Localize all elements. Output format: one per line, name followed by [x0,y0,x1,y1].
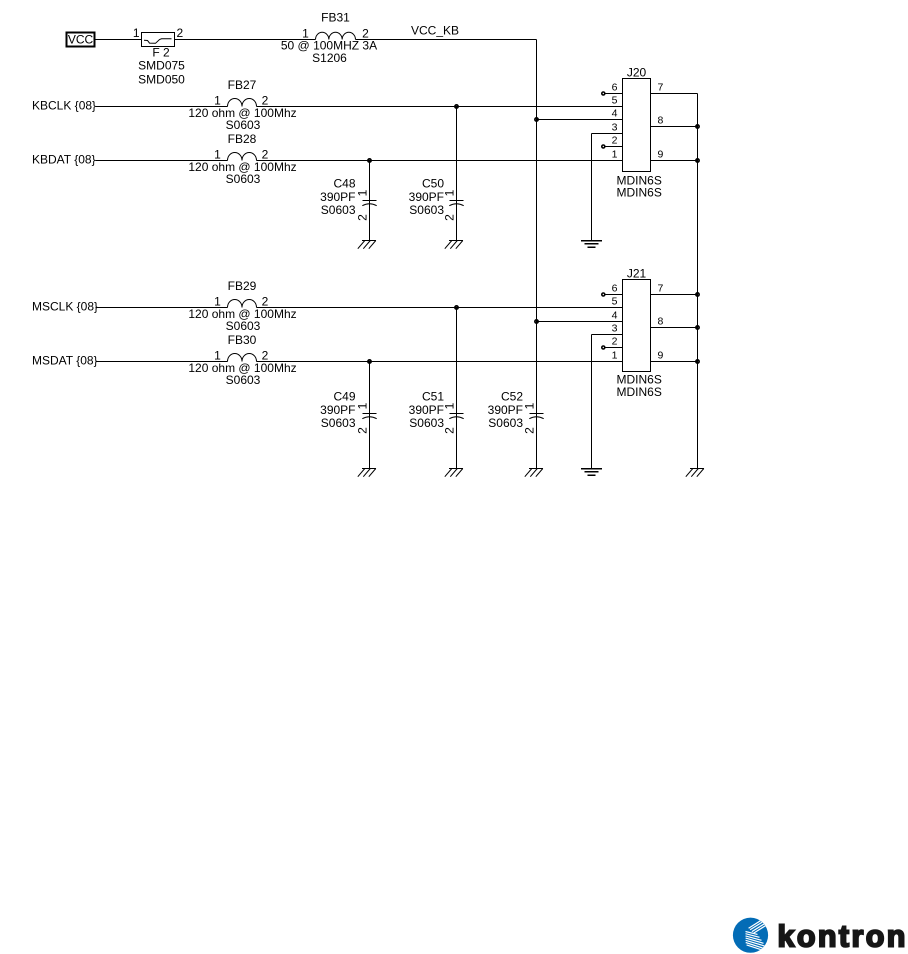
svg-text:1: 1 [133,26,140,40]
wire VCC_KB to J21 pin 4 [537,321,623,323]
svg-text:S0603: S0603 [488,416,523,430]
power port VCC [67,33,95,47]
svg-text:1: 1 [356,189,370,196]
svg-text:S0603: S0603 [226,172,261,186]
junction KBCLK / C50 [455,105,458,108]
svg-text:J20: J20 [627,66,647,80]
svg-text:2: 2 [443,214,457,221]
junction VCC_KB rail / J20 pin 4 [535,118,538,121]
J21 pin 6 no-connect [602,293,623,296]
ground C48 [358,241,376,249]
svg-text:2: 2 [356,214,370,221]
capacitor C51 wire [456,308,458,469]
svg-text:1: 1 [443,189,457,196]
wire J20 pin 3 horizontal [592,133,623,135]
ferrite bead FB31 [316,11,356,40]
wire KBCLK to FB27 pin 1 [96,106,228,108]
ground J21 shield [581,469,602,476]
ground J20 shield [581,241,602,248]
svg-text:KBCLK {08}: KBCLK {08} [32,99,96,113]
wire J20 pin 8 [651,126,698,128]
svg-text:FB31: FB31 [321,11,350,25]
svg-text:J21: J21 [627,267,647,281]
junction VCC_KB rail / J21 pin 4 [535,320,538,323]
svg-text:2: 2 [523,427,537,434]
ferrite bead FB28 [228,132,257,161]
wire KBDAT to FB28 pin 1 [96,160,228,162]
wire VCC to F2 pin 1 [95,39,142,41]
wire FB31 to VCC_KB rail [356,39,537,41]
svg-text:SMD050: SMD050 [138,73,185,87]
wire FB27 to J20 pin 5 [257,106,623,108]
ground C50 [445,241,463,249]
wire MSCLK to FB29 pin 1 [96,307,228,309]
junction MSDAT / C49 [368,360,371,363]
ferrite bead FB27 [228,78,257,107]
capacitor C52 [529,414,543,419]
svg-text:C51: C51 [422,390,444,404]
wire J20 pin 9 [651,160,698,162]
svg-text:1: 1 [612,350,618,362]
svg-text:1: 1 [443,402,457,409]
svg-text:VCC: VCC [68,33,94,47]
svg-text:KBDAT {08}: KBDAT {08} [32,153,96,167]
capacitor C48 wire [369,161,371,241]
capacitor C48 [362,201,376,206]
junction shield rail / J21 pin 9 [696,360,699,363]
svg-text:2: 2 [356,427,370,434]
svg-text:390PF: 390PF [320,403,355,417]
svg-text:9: 9 [658,149,664,161]
ground C52 [525,469,543,477]
svg-text:FB30: FB30 [228,333,257,347]
wire J21 pin 9 [651,361,698,363]
wire J21 pin 3 to ground [591,335,593,469]
wire J21 pin 7 [651,294,698,296]
svg-text:MSCLK {08}: MSCLK {08} [32,300,98,314]
svg-text:5: 5 [612,296,618,308]
svg-text:S0603: S0603 [226,373,261,387]
svg-text:390PF: 390PF [488,403,523,417]
svg-text:390PF: 390PF [320,190,355,204]
svg-text:5: 5 [612,95,618,107]
svg-text:MDIN6S: MDIN6S [617,186,662,200]
wire FB28 to J20 pin 1 [257,160,623,162]
junction shield rail / J20 pin 9 [696,159,699,162]
svg-text:8: 8 [658,316,664,328]
wire VCC_KB to J20 pin 4 [537,119,623,121]
svg-text:2: 2 [177,26,184,40]
svg-text:C50: C50 [422,177,444,191]
svg-text:F 2: F 2 [152,46,170,60]
wire J20 pin 3 to ground [591,134,593,241]
svg-text:S0603: S0603 [226,319,261,333]
svg-text:C52: C52 [501,390,523,404]
junction KBDAT / C48 [368,159,371,162]
junction MSCLK / C51 [455,306,458,309]
svg-text:1: 1 [612,149,618,161]
svg-text:S0603: S0603 [321,416,356,430]
fuse F2 [142,33,175,47]
svg-text:390PF: 390PF [409,190,444,204]
svg-text:MSDAT {08}: MSDAT {08} [32,354,98,368]
svg-text:S1206: S1206 [312,51,347,65]
svg-text:C49: C49 [333,390,355,404]
wire F2 to FB31 pin 1 [175,39,316,41]
junction shield rail / J20 pin 8 [696,125,699,128]
capacitor C49 wire [369,362,371,469]
svg-text:FB28: FB28 [228,132,257,146]
capacitor C50 [449,201,463,206]
wire VCC_KB vertical rail down to C52 [536,40,538,414]
svg-text:3: 3 [612,122,618,134]
Kontron logo mark [733,916,772,953]
svg-text:S0603: S0603 [321,203,356,217]
svg-text:3: 3 [612,323,618,335]
ground shield rail [686,469,704,477]
svg-text:1: 1 [356,402,370,409]
ferrite bead FB30 [228,333,257,362]
wire J21 pin 3 horizontal [592,334,623,336]
svg-text:6: 6 [612,82,618,94]
svg-text:2: 2 [443,427,457,434]
ground C51 [445,469,463,477]
svg-text:SMD075: SMD075 [138,59,185,73]
wire FB29 to J21 pin 5 [257,307,623,309]
connector J20 body [623,66,651,172]
junction shield rail / J21 pin 8 [696,326,699,329]
svg-text:S0603: S0603 [226,118,261,132]
capacitor C50 wire [456,107,458,241]
wire FB30 to J21 pin 1 [257,361,623,363]
svg-text:8: 8 [658,115,664,127]
svg-text:kontron: kontron [778,920,908,954]
svg-text:4: 4 [612,108,618,120]
svg-text:390PF: 390PF [409,403,444,417]
ground C49 [358,469,376,477]
svg-text:9: 9 [658,350,664,362]
wire shield rail vertical [697,94,699,469]
ferrite bead FB29 [228,279,257,308]
svg-text:MDIN6S: MDIN6S [617,385,662,399]
svg-text:7: 7 [658,82,664,94]
wire J21 pin 8 [651,327,698,329]
junction shield rail / J21 pin 7 [696,293,699,296]
capacitor C49 [362,414,376,419]
svg-text:FB27: FB27 [228,78,257,92]
svg-text:4: 4 [612,310,618,322]
svg-text:S0603: S0603 [409,416,444,430]
capacitor C51 [449,414,463,419]
J20 pin 2 no-connect [602,145,623,148]
svg-text:C48: C48 [333,177,355,191]
svg-text:FB29: FB29 [228,279,257,293]
svg-text:7: 7 [658,283,664,295]
svg-text:2: 2 [612,336,618,348]
svg-text:2: 2 [612,135,618,147]
svg-text:6: 6 [612,283,618,295]
svg-text:VCC_KB: VCC_KB [411,24,459,38]
capacitor C52 wire to ground [536,414,538,469]
svg-text:S0603: S0603 [409,203,444,217]
J21 pin 2 no-connect [602,346,623,349]
wire MSDAT to FB30 pin 1 [96,361,228,363]
wire J20 pin 7 [651,93,698,95]
J20 pin 6 no-connect [602,92,623,95]
connector J21 body [623,267,651,372]
svg-text:1: 1 [523,402,537,409]
